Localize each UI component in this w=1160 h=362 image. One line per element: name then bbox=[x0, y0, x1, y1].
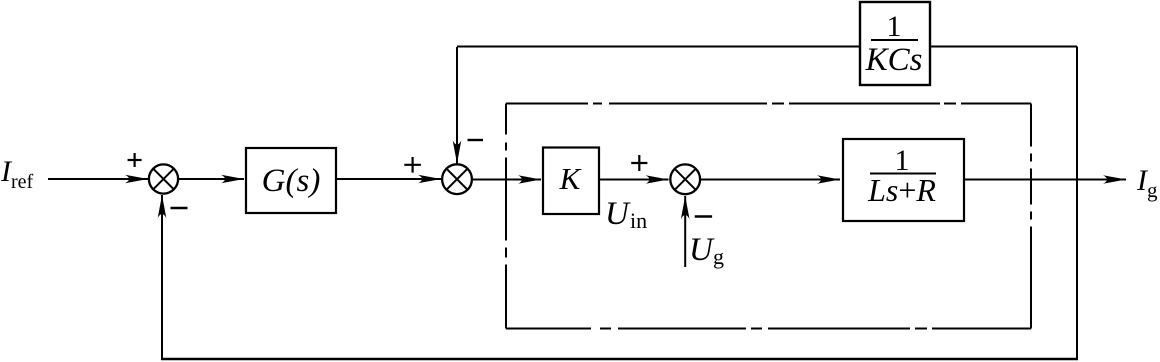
block 1/KCs bbox=[860, 2, 930, 85]
wire S3 to 1/(Ls+R) bbox=[700, 179, 840, 181]
minus sign at S1 bbox=[171, 207, 188, 209]
label I_g bbox=[1136, 164, 1158, 202]
right feedback vertical wire x=1077 bbox=[1076, 47, 1078, 360]
wire G(s) to summing junction S2 bbox=[336, 178, 441, 180]
dashed subsystem boundary top edge bbox=[506, 103, 1031, 105]
output wire to I_g bbox=[964, 179, 1126, 181]
wire K to summing junction S3 bbox=[599, 179, 669, 181]
svg-text:KCs: KCs bbox=[865, 42, 923, 78]
svg-text:g: g bbox=[713, 244, 724, 269]
dashed subsystem boundary right edge bbox=[1030, 104, 1032, 329]
svg-text:1: 1 bbox=[887, 10, 902, 43]
top feedback wire y=46.5 bbox=[457, 46, 1077, 48]
wire from 1/KCs down into S2 bbox=[456, 47, 458, 164]
summing junction S3 bbox=[670, 164, 700, 194]
summing junction S1 bbox=[149, 164, 178, 193]
svg-text:ref: ref bbox=[11, 171, 34, 193]
svg-text:U: U bbox=[605, 196, 631, 232]
svg-text:g: g bbox=[1147, 178, 1158, 202]
dashed subsystem boundary left edge bbox=[505, 104, 507, 329]
minus sign at S3 bbox=[695, 215, 712, 217]
block 1/(Ls+R) bbox=[843, 139, 964, 221]
wire U_g up into S3 bbox=[684, 196, 686, 267]
summing junction S2 bbox=[442, 164, 472, 194]
svg-text:G(s): G(s) bbox=[262, 163, 321, 199]
wire input to summing junction S1 bbox=[48, 178, 148, 180]
svg-text:K: K bbox=[559, 161, 583, 196]
plus sign at S2 bbox=[404, 157, 421, 173]
wire feedback up into S1 bbox=[161, 195, 163, 359]
block G(s) bbox=[246, 148, 336, 213]
wire S2 to K bbox=[472, 179, 541, 181]
svg-text:in: in bbox=[630, 208, 647, 233]
svg-text:U: U bbox=[689, 232, 715, 268]
plus sign at S1 bbox=[128, 153, 142, 167]
label U_in bbox=[605, 196, 647, 233]
label I_ref bbox=[0, 155, 34, 193]
minus sign at S2 bbox=[468, 139, 484, 141]
bottom feedback wire y=359 bbox=[161, 358, 1078, 360]
plus sign at S3 bbox=[631, 155, 647, 171]
gain block K bbox=[543, 148, 599, 215]
wire S1 to G(s) bbox=[178, 178, 244, 180]
svg-text:Ls+R: Ls+R bbox=[867, 172, 936, 208]
label U_g bbox=[689, 232, 724, 269]
dashed subsystem boundary bottom edge bbox=[506, 328, 1031, 330]
